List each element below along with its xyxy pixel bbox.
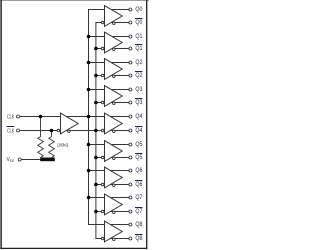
inversion bubble Q8bar output	[113, 238, 116, 241]
svg-text:Q4: Q4	[135, 127, 142, 134]
pin Q4bar terminal	[129, 129, 132, 132]
junction CLK / R1	[39, 115, 43, 119]
label Q7bar (overline)	[135, 207, 142, 209]
inversion bubble buffer 8 inverting input	[101, 237, 104, 240]
junction bus complement / buffer 1	[94, 47, 98, 51]
inversion bubble Q4bar output	[113, 130, 116, 133]
wire CLKb row (CLKb input through receiver to Q4bar line)	[20, 130, 129, 132]
inversion bubble Q7bar output	[113, 211, 116, 214]
inversion bubble buffer 4 inverting input	[101, 129, 104, 132]
svg-text:100kΩ: 100kΩ	[57, 143, 69, 148]
svg-text:Q0: Q0	[135, 19, 142, 26]
svg-text:Q5: Q5	[135, 141, 142, 148]
svg-text:Q1: Q1	[135, 33, 142, 40]
wire buffer 5 true input / Q5 output	[88, 144, 129, 146]
svg-text:CLK: CLK	[7, 115, 14, 121]
inversion bubble buffer 5 inverting input	[101, 156, 104, 159]
svg-text:Q8: Q8	[135, 235, 142, 242]
svg-text:Q2: Q2	[135, 72, 142, 79]
label Q6bar (overline)	[135, 180, 142, 182]
buffer U6 (output driver 4)	[105, 113, 123, 134]
svg-text:Q8: Q8	[135, 221, 142, 228]
junction CLKb / R2	[50, 129, 54, 133]
junction bus true / buffer 1	[87, 35, 91, 39]
junction bus complement / buffer 6	[94, 183, 98, 187]
op-amp U1 input receiver	[61, 113, 79, 134]
inversion bubble U1 complement output	[68, 130, 71, 133]
wire buffer 8 complement input / Q8bar output	[95, 238, 128, 240]
svg-text:Q7: Q7	[135, 194, 142, 201]
svg-text:Q2: Q2	[135, 59, 142, 66]
pin Q7 terminal	[129, 196, 132, 199]
svg-text:Q3: Q3	[135, 86, 142, 93]
junction bus complement / buffer 3	[94, 101, 98, 105]
junction bus true / buffer 2	[87, 61, 91, 65]
pin CLKb terminal	[17, 129, 20, 132]
buffer U4 (output driver 2)	[105, 59, 123, 80]
svg-text:Q7: Q7	[135, 208, 142, 215]
junction bus complement / buffer 5	[94, 156, 98, 160]
wire buffer 0 true input / Q0 output	[88, 9, 129, 11]
wire buffer 2 complement input / Q2bar output	[95, 75, 128, 77]
inversion bubble Q3bar output	[113, 102, 116, 105]
buffer U8 (output driver 6)	[105, 167, 123, 188]
pin VEE terminal	[18, 158, 21, 161]
buffer U9 (output driver 7)	[105, 194, 123, 215]
pin Q6 terminal	[129, 169, 132, 172]
pin Q4 terminal	[129, 115, 132, 118]
pin Q2 terminal	[129, 61, 132, 64]
inversion bubble Q1bar output	[113, 48, 116, 51]
inversion bubble buffer 2 inverting input	[101, 74, 104, 77]
inversion bubble U1 inverting input	[57, 129, 60, 132]
wire buffer 2 true input / Q2 output	[88, 62, 129, 64]
wire buffer 5 complement input / Q5bar output	[95, 157, 128, 159]
label Q0bar (overline)	[135, 18, 142, 20]
inversion bubble buffer 6 inverting input	[101, 183, 104, 186]
pin Q3 terminal	[129, 88, 132, 91]
pin Q5bar terminal	[129, 156, 132, 159]
junction receiver true output / bus true	[87, 115, 91, 119]
svg-text:Q5: Q5	[135, 154, 142, 161]
wire buffer 3 true input / Q3 output	[88, 89, 129, 91]
wire CLK row (CLK input through receiver to Q4 line)	[20, 116, 129, 118]
pin Q0 terminal	[129, 8, 132, 11]
wire buffer 3 complement input / Q3bar output	[95, 102, 128, 104]
junction bus true / buffer 7	[87, 196, 91, 200]
svg-text:Q1: Q1	[135, 45, 142, 52]
buffer U3 (output driver 1)	[105, 32, 123, 53]
pin Q0bar terminal	[129, 21, 132, 24]
wire buffer 6 true input / Q6 output	[88, 170, 129, 172]
svg-text:Q6: Q6	[135, 167, 142, 174]
junction receiver complement output / bus complement	[94, 129, 98, 133]
junction bus complement / buffer 2	[94, 74, 98, 78]
pin Q1 terminal	[129, 35, 132, 38]
pin Q1bar terminal	[129, 47, 132, 50]
svg-text:Q6: Q6	[135, 181, 142, 188]
wire buffer 0 complement input / Q0bar output	[95, 22, 128, 24]
pin Q8 terminal	[129, 223, 132, 226]
svg-text:Q4: Q4	[135, 113, 142, 120]
inversion bubble Q6bar output	[113, 184, 116, 187]
inversion bubble buffer 3 inverting input	[101, 101, 104, 104]
buffer U7 (output driver 5)	[105, 141, 123, 162]
pin CLK terminal	[17, 115, 20, 118]
inversion bubble Q0bar output	[113, 22, 116, 25]
VEE common bus bar	[40, 158, 55, 162]
junction bus true / buffer 3	[87, 88, 91, 92]
pin Q3bar terminal	[129, 101, 132, 104]
label CLKb (overline)	[7, 126, 15, 128]
label Q3bar (overline)	[135, 98, 142, 100]
wire buffer 7 true input / Q7 output	[88, 197, 129, 199]
resistor R2 100k (CLKb pulldown)	[49, 131, 55, 158]
pin Q6bar terminal	[129, 183, 132, 186]
svg-text:Q3: Q3	[135, 99, 142, 106]
label Q8bar (overline)	[135, 234, 142, 236]
wire buffer 1 true input / Q1 output	[88, 36, 129, 38]
pin Q2bar terminal	[129, 74, 132, 77]
wire buffer 8 true input / Q8 output	[88, 224, 129, 226]
wire bus complement (vertical net feeding buffer inverting inputs)	[95, 23, 97, 239]
label Q1bar (overline)	[135, 44, 142, 46]
wire buffer 6 complement input / Q6bar output	[95, 184, 128, 186]
inversion bubble buffer 0 inverting input	[101, 21, 104, 24]
svg-text:Q0: Q0	[135, 6, 142, 13]
label Q5bar (overline)	[135, 153, 142, 155]
junction bus true / buffer 6	[87, 169, 91, 173]
inversion bubble Q2bar output	[113, 75, 116, 78]
junction bus complement / buffer 7	[94, 210, 98, 214]
inversion bubble Q5bar output	[113, 157, 116, 160]
inversion bubble buffer 1 inverting input	[101, 47, 104, 50]
buffer U10 (output driver 8)	[105, 221, 123, 242]
buffer U2 (output driver 0)	[105, 6, 123, 27]
pin Q7bar terminal	[129, 210, 132, 213]
wire buffer 1 complement input / Q1bar output	[95, 48, 128, 50]
junction bus true / buffer 5	[87, 143, 91, 147]
wire bus true (vertical net feeding buffer non-inverting inputs)	[88, 10, 90, 225]
resistor R1 100k (CLK pulldown)	[38, 117, 44, 158]
inversion bubble buffer 7 inverting input	[101, 210, 104, 213]
pin Q8bar terminal	[129, 237, 132, 240]
label Q2bar (overline)	[135, 71, 142, 73]
pin Q5 terminal	[129, 143, 132, 146]
wire VEE to resistor common bar	[21, 159, 40, 161]
label Q4bar (overline)	[135, 126, 142, 128]
buffer U5 (output driver 3)	[105, 86, 123, 107]
wire buffer 7 complement input / Q7bar output	[95, 211, 128, 213]
svg-text:CLK: CLK	[7, 129, 14, 135]
